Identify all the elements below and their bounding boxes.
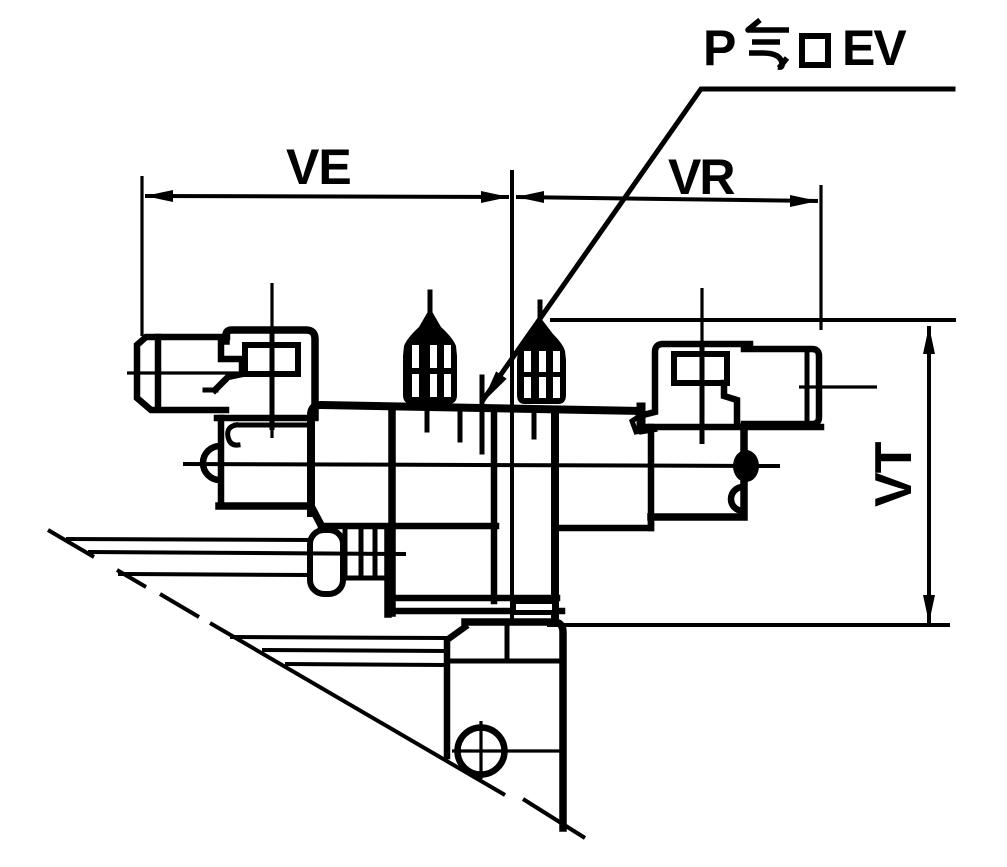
- block side boss arc: [203, 446, 220, 480]
- block top edge: [217, 415, 315, 422]
- left bell knob: [403, 292, 457, 404]
- port line B: [458, 410, 463, 440]
- barrel flange line: [805, 350, 810, 422]
- svg-text:VE: VE: [286, 139, 351, 195]
- left bell body: [403, 308, 457, 404]
- bracket chamfer and left edge: [447, 627, 465, 756]
- clamp joint step: [724, 383, 737, 426]
- VE left arrowhead: [145, 190, 173, 202]
- block bottom edge with chamfer: [219, 506, 321, 525]
- clamp centerline upper tick: [700, 288, 703, 341]
- port pin at P port: [480, 377, 485, 452]
- bracket band divider: [505, 624, 510, 661]
- VR left arrowhead: [516, 191, 544, 203]
- VE left extension line: [140, 176, 143, 336]
- bottom bracket: [447, 622, 563, 828]
- clamp centerline lower tick: [270, 430, 273, 438]
- barrel flange line: [155, 337, 162, 409]
- step tab at body junction: [637, 407, 646, 425]
- side notch arc: [731, 487, 743, 511]
- dimension VT: [547, 320, 956, 625]
- tower left edge: [491, 412, 498, 601]
- lower block bottom line A: [388, 595, 557, 602]
- hole circle: [458, 728, 505, 775]
- VE right arrowhead: [481, 191, 509, 203]
- port line A: [425, 410, 430, 430]
- VR dimension line: [516, 197, 818, 201]
- right bell stem: [538, 302, 543, 326]
- block left edge: [218, 418, 225, 504]
- left clamp bracket: [205, 283, 315, 438]
- left lower block: [203, 418, 321, 525]
- vertical centerline between VE and VR: [510, 170, 514, 620]
- main valve body: [183, 377, 780, 621]
- clamp centerline upper tick: [270, 283, 273, 330]
- VR right arrowhead: [790, 195, 818, 207]
- clamp joint tail: [205, 388, 216, 393]
- diagonal dash 4: [210, 623, 505, 795]
- label P气口EV (P port EV): [703, 20, 907, 76]
- stub bottom edge: [344, 576, 390, 581]
- lower block bottom line B: [388, 608, 562, 615]
- glyph 气 top slash and first horizontal stroke: [748, 20, 789, 30]
- barrel outline with chamfered end cap: [137, 337, 227, 410]
- body horizontal centerline: [183, 464, 780, 466]
- hole vertical centerline: [479, 721, 482, 779]
- barrel outline: [744, 349, 819, 424]
- glyph 气 final flick: [779, 58, 787, 68]
- lower rail 2: [262, 650, 448, 651]
- lower block left edge: [384, 530, 392, 614]
- body left edge and top edge: [311, 405, 640, 513]
- barrel centerline: [127, 371, 247, 374]
- lower rail 3: [285, 664, 448, 665]
- upper rail 1: [66, 539, 310, 540]
- clamp window: [245, 345, 298, 374]
- diagonal dash 1: [48, 530, 94, 557]
- diagonal dash 2: [117, 570, 146, 587]
- right bell knob: [517, 302, 566, 404]
- clamp outline with foot: [639, 344, 750, 431]
- leader polyline: [483, 89, 953, 400]
- retaining ring: [310, 530, 343, 594]
- svg-text:P: P: [703, 20, 736, 76]
- block bottom and right edge: [651, 427, 744, 517]
- lower rail 1: [230, 637, 448, 638]
- svg-text:VR: VR: [668, 149, 735, 205]
- glyph 气 bottom hook stroke: [749, 53, 782, 67]
- right bell slots: [524, 351, 531, 372]
- barrel centerline: [799, 385, 877, 388]
- body section divider: [388, 408, 396, 613]
- right clamp bracket: [639, 288, 750, 444]
- thread hatch lines: [343, 531, 348, 578]
- clamp center divider: [700, 341, 705, 444]
- VT bottom arrowhead: [923, 595, 935, 623]
- leader arrowhead: [482, 371, 507, 403]
- screw hole circle: [452, 721, 560, 779]
- body bottom edge right segment: [557, 517, 651, 528]
- VR right extension line: [819, 185, 822, 330]
- port line C: [532, 410, 537, 437]
- svg-text:VT: VT: [865, 441, 923, 507]
- glyph 口: [802, 36, 828, 65]
- mounting rails lower: [230, 637, 448, 665]
- VT dimension line: [927, 326, 931, 623]
- clamp joint step: [215, 338, 242, 390]
- mounting surface diagonal: [48, 530, 585, 838]
- block inner line: [236, 423, 308, 428]
- svg-text:EV: EV: [842, 20, 907, 76]
- mounting rails upper: [66, 539, 310, 575]
- right bell body: [517, 317, 566, 404]
- block top edge: [645, 424, 821, 431]
- block left edge: [648, 427, 655, 528]
- upper rail 2: [118, 574, 310, 575]
- dimension VR: [516, 149, 821, 330]
- leader line from label to P port: [482, 89, 953, 403]
- right barrel fitting: [744, 349, 877, 424]
- tower right edge: [551, 410, 559, 621]
- VE dimension line: [145, 196, 509, 197]
- bracket top and right edge: [465, 622, 563, 828]
- clamp outline: [226, 330, 315, 417]
- dimension VE: [142, 139, 509, 336]
- left muffler barrel: [127, 337, 247, 410]
- block hook detail: [228, 425, 238, 445]
- VT top arrowhead: [923, 326, 935, 354]
- left bell slots: [412, 345, 419, 368]
- tower foot pad: [510, 598, 559, 615]
- clamp center divider: [270, 330, 275, 430]
- glyph 气 middle horizontal stroke: [752, 39, 780, 45]
- diagonal dash 3: [160, 594, 199, 617]
- right body block: [632, 407, 821, 528]
- bracket band line: [451, 659, 561, 664]
- stub centerline rail: [88, 552, 406, 554]
- VT bottom extension line: [547, 623, 950, 627]
- diagonal dash 5: [523, 799, 585, 838]
- clamp window: [674, 354, 727, 383]
- side port boss: [733, 450, 759, 482]
- lower block with threaded stub: [88, 530, 562, 615]
- left bell stem: [428, 292, 433, 316]
- VT top extension line: [550, 318, 956, 322]
- body bottom edge left segment: [321, 523, 496, 530]
- hole horizontal centerline: [452, 749, 560, 752]
